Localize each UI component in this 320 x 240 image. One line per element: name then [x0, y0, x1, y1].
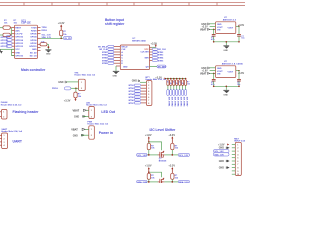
wire EN pullup net: [41, 37, 64, 39]
IC U2 left pin names: [121, 46, 128, 65]
resistor R13 value label: [151, 145, 155, 149]
IC U1 ESP-12E body: [15, 25, 38, 58]
svg-text:SR_SER: SR_SER: [158, 66, 167, 68]
svg-text:SW_BTN3: SW_BTN3: [174, 97, 176, 107]
resistor R12: [74, 88, 77, 98]
global label GPIO16: [1, 36, 13, 39]
svg-text:CH_PD: CH_PD: [15, 34, 23, 36]
resistor R14 value label: [175, 145, 179, 149]
svg-text:Flashing header: Flashing header: [13, 110, 40, 114]
svg-text:1: 1: [4, 135, 5, 137]
svg-text:GND: GND: [201, 23, 207, 26]
svg-text:2: 2: [91, 116, 92, 118]
power +3.3V at U2 VCC: [151, 43, 158, 48]
IC U1 right pins: [38, 27, 41, 50]
power flag VBAT at PWR pin1: [71, 128, 89, 131]
svg-text:5: 5: [237, 158, 238, 160]
svg-text:ADC: ADC: [15, 30, 20, 33]
svg-text:RXD0: RXD0: [42, 30, 48, 32]
junctions SCL wire: [148, 154, 173, 156]
section title Flashing header: [13, 110, 40, 114]
hierarchical label BTN7 at BT1: [129, 102, 141, 105]
svg-text:1k: 1k: [179, 81, 181, 83]
svg-text:SN74HC165D: SN74HC165D: [132, 40, 146, 43]
sheet border top: [0, 3, 245, 6]
hierarchical label SR_CLK: [99, 48, 114, 51]
svg-text:GPIO14: GPIO14: [15, 39, 23, 42]
hierarchical label BTN4 at BT1: [129, 93, 141, 96]
svg-text:4.7u: 4.7u: [211, 83, 215, 86]
junction R4: [48, 46, 50, 48]
svg-text:Header Male 2.54, 1x2: Header Male 2.54, 1x2: [1, 103, 23, 106]
resistor R3 pullup: [60, 30, 63, 38]
svg-text:BTN1: BTN1: [102, 52, 108, 54]
svg-text:SR_CLK: SR_CLK: [99, 49, 108, 51]
power +1.8V at SDA shifter: [145, 165, 152, 173]
wire SDA 1.8V side: [147, 181, 158, 183]
ground flag at U4 GND: [201, 67, 215, 70]
wire U2 QH out: [150, 66, 158, 68]
wire GND row: [12, 49, 15, 55]
svg-text:BTN3: BTN3: [102, 58, 108, 60]
net label SDA_3.3V: [42, 36, 52, 39]
svg-text:BTN3: BTN3: [158, 55, 164, 57]
global label GPIO12: [1, 42, 13, 45]
junction SDA gate: [148, 171, 150, 173]
resistor R2: [0, 33, 12, 36]
IC U2 left pins: [114, 46, 121, 63]
connector BT1 reference label: [146, 77, 168, 81]
svg-text:1: 1: [91, 110, 92, 112]
wire U2 GND: [116, 66, 120, 71]
vertical hierarchical labels BTN1-BTN7: [167, 90, 187, 96]
transistor Q2 BSS138: [158, 178, 165, 183]
section title Main controller: [21, 68, 46, 72]
svg-text:GPIO14: GPIO14: [1, 39, 9, 42]
svg-text:GPIO15: GPIO15: [15, 56, 23, 58]
transistor Q1 BSS138: [158, 151, 165, 158]
svg-text:+1.8V: +1.8V: [145, 134, 152, 137]
resistor network R5-R11: [167, 80, 187, 86]
hierarchical label BTN1 at BT1: [129, 84, 141, 87]
svg-text:RXD0: RXD0: [31, 31, 37, 33]
svg-text:SCL_3.3V: SCL_3.3V: [179, 155, 189, 157]
hierarchical label BTN2: [102, 54, 114, 57]
resistor R1 value label: [4, 20, 8, 24]
power +3.3V above R3: [58, 22, 65, 30]
wire SDA 3.3V side: [164, 181, 178, 183]
power +3.3V at SCL shifter: [168, 134, 175, 143]
svg-text:2: 2: [4, 139, 5, 141]
power +3.3V at U3 output: [238, 24, 245, 27]
svg-text:SCL_1.8V: SCL_1.8V: [137, 155, 147, 157]
svg-text:VOUT: VOUT: [228, 71, 234, 73]
svg-text:GND: GND: [217, 24, 222, 26]
resistor R2 value label: [14, 20, 18, 24]
svg-text:TXD0: TXD0: [42, 27, 48, 29]
svg-text:ESP-12E: ESP-12E: [21, 23, 31, 25]
junctions U3 rail: [213, 41, 240, 43]
connector UART pins: [0, 135, 2, 145]
svg-text:SDA_3.3V: SDA_3.3V: [179, 181, 189, 183]
capacitor C3: [212, 73, 216, 86]
svg-text:GPIO2: GPIO2: [30, 43, 37, 45]
svg-text:GPIO4: GPIO4: [30, 36, 37, 39]
wire U4 output: [236, 70, 239, 72]
svg-text:10: 10: [237, 174, 239, 176]
connector BT1 left pins: [141, 85, 146, 103]
connector LED reference label: [86, 102, 108, 106]
svg-text:2: 2: [91, 135, 92, 137]
svg-text:3: 3: [148, 88, 149, 90]
svg-text:BTN7: BTN7: [129, 103, 135, 105]
svg-text:7: 7: [237, 164, 238, 166]
svg-text:VBAT: VBAT: [71, 128, 78, 131]
global label SDA_1.8V at MA1: [213, 153, 229, 157]
svg-text:SH/LD: SH/LD: [121, 46, 128, 48]
svg-text:3: 3: [237, 151, 238, 153]
connector LED pin numbers: [91, 110, 92, 118]
connector BT1 pin numbers: [148, 82, 149, 105]
svg-text:VCC: VCC: [15, 49, 20, 51]
svg-text:2: 2: [81, 88, 82, 90]
power flag +1.8V at U4 VOUT tab: [202, 71, 216, 73]
svg-text:Main controller: Main controller: [21, 68, 46, 72]
junction U4 input cap: [213, 73, 215, 75]
power +3.3V below R12: [64, 98, 77, 102]
svg-text:GND: GND: [123, 66, 128, 68]
section title Button input shift register: [105, 18, 125, 26]
svg-text:GND: GND: [219, 160, 225, 163]
hierarchical label SR_CLD: [152, 48, 166, 51]
global label SDA_3.3V: [178, 180, 189, 184]
wire U4 ground rail: [214, 86, 239, 90]
svg-text:SDA_1.8V: SDA_1.8V: [214, 153, 224, 156]
resistor R13: [147, 142, 150, 155]
svg-text:GND: GND: [223, 50, 228, 52]
svg-text:SER: SER: [144, 57, 149, 59]
svg-text:C: C: [121, 58, 123, 60]
svg-text:10k: 10k: [4, 22, 8, 24]
wire SCL 3.3V side: [164, 154, 178, 156]
svg-text:+3.3V: +3.3V: [155, 76, 162, 79]
svg-text:10u: 10u: [241, 38, 244, 40]
svg-text:+3.3V: +3.3V: [168, 134, 175, 137]
wire SCL gate branch: [149, 142, 162, 150]
resistor R15: [147, 173, 150, 182]
power +3.3V at SDA shifter: [168, 165, 175, 174]
capacitor C4 value label: [237, 82, 240, 86]
svg-text:+3.3V: +3.3V: [168, 165, 175, 168]
svg-text:VBAT: VBAT: [200, 72, 207, 75]
svg-text:GND: GND: [15, 52, 20, 54]
svg-text:VCC: VCC: [144, 49, 149, 51]
wire U2 VCC: [150, 46, 156, 48]
svg-text:GND: GND: [73, 135, 78, 137]
junction EN pullup: [60, 37, 62, 39]
connector BT1 body: [146, 81, 152, 106]
svg-text:BTN2: BTN2: [102, 55, 108, 57]
svg-text:7: 7: [148, 100, 149, 102]
svg-text:1: 1: [3, 112, 4, 114]
ground flag at LED pin2: [74, 115, 89, 118]
IC U2 right pins: [150, 49, 153, 60]
svg-text:UART: UART: [13, 140, 23, 144]
resistor R4 pulldown: [40, 43, 48, 50]
svg-text:BTN4: BTN4: [158, 57, 164, 60]
regulator U4 pin names: [217, 68, 234, 76]
svg-text:Header Male 2.54, 1x2: Header Male 2.54, 1x2: [74, 74, 96, 77]
capacitor C3 value label: [211, 82, 215, 86]
svg-text:1: 1: [148, 82, 149, 84]
svg-text:B: B: [121, 55, 123, 57]
svg-text:SW_BTN1: SW_BTN1: [168, 97, 170, 107]
svg-text:VIN: VIN: [217, 74, 221, 76]
vertical net name texts BTN1-BTN7: [168, 97, 188, 107]
svg-text:BSS138: BSS138: [159, 160, 167, 162]
hierarchical label SR_SRLD: [98, 45, 114, 48]
svg-text:1: 1: [81, 82, 82, 84]
svg-text:AMS1117-3.3: AMS1117-3.3: [223, 19, 237, 22]
resistor R1: [0, 26, 12, 29]
connector TH1 body: [79, 79, 86, 90]
connector PWR pin numbers: [91, 129, 92, 137]
connector UART reference label: [1, 128, 23, 133]
svg-text:shift register: shift register: [105, 22, 125, 26]
regulator U3 body: [216, 22, 236, 34]
svg-text:Power in: Power in: [99, 131, 113, 135]
hierarchical label BTN3 at BT1: [129, 90, 141, 93]
svg-text:SW_BTN2: SW_BTN2: [171, 97, 173, 107]
svg-text:GND: GND: [132, 80, 138, 83]
svg-text:GND: GND: [58, 81, 64, 84]
hierarchical label BTN5 right: [152, 59, 164, 62]
svg-text:10k: 10k: [14, 22, 18, 24]
global label GPIO13: [1, 45, 13, 48]
svg-text:9: 9: [237, 171, 238, 173]
connector FLASH reference label: [1, 101, 23, 106]
svg-text:GND: GND: [217, 68, 222, 70]
IC U1 left pins: [12, 27, 15, 55]
svg-text:I2C Level Shifter: I2C Level Shifter: [150, 128, 177, 132]
section title LED Out: [101, 110, 115, 114]
svg-text:SW_BTN7: SW_BTN7: [185, 97, 187, 107]
svg-text:SW_BTN4: SW_BTN4: [177, 97, 180, 107]
svg-text:VBAT: VBAT: [200, 28, 207, 31]
IC U1 left pin names: [15, 27, 23, 57]
svg-text:1: 1: [91, 129, 92, 131]
svg-text:SR_CLD: SR_CLD: [158, 49, 167, 51]
svg-text:GPIO0: GPIO0: [30, 40, 37, 42]
global label SCL_1.8V at MA1: [213, 150, 229, 154]
regulator U3 pin names: [217, 24, 234, 32]
svg-text:10k: 10k: [78, 96, 82, 98]
global label SCL_1.8V: [137, 153, 148, 157]
connector UART pin numbers: [4, 135, 5, 147]
net label at TH1 pin2: [64, 87, 78, 90]
connector PWR reference label: [87, 122, 109, 126]
ground flag at MA1 pin2: [219, 147, 230, 150]
global label SDA_1.8V: [137, 180, 148, 184]
resistor R16: [171, 173, 174, 182]
svg-text:BTN4: BTN4: [102, 59, 108, 62]
capacitor C2: [237, 27, 241, 42]
capacitor C4: [237, 71, 241, 87]
transistor Q1 label: [159, 158, 167, 162]
power flag +3.3V at U3 VOUT tab: [202, 27, 216, 29]
resistor network bottom leads: [168, 85, 186, 89]
ground below U4: [223, 90, 229, 97]
svg-text:VOUT: VOUT: [228, 27, 234, 29]
svg-text:BTN5: BTN5: [129, 97, 135, 99]
ground at left edge: [0, 49, 3, 53]
wire joining R1 R2 to pins: [10, 28, 12, 35]
svg-text:4.7u: 4.7u: [211, 38, 215, 41]
IC U2 reference label: [132, 38, 146, 42]
svg-text:VOUT: VOUT: [217, 71, 223, 73]
svg-text:PROG: PROG: [52, 88, 58, 90]
svg-text:GND: GND: [32, 49, 37, 51]
global label GPIO14: [1, 39, 13, 42]
svg-text:GND: GND: [74, 117, 79, 119]
connector FLASH pin numbers: [3, 112, 4, 119]
resistor R15 value label: [151, 175, 155, 179]
section title I2C Level Shifter: [150, 128, 177, 132]
svg-text:8: 8: [237, 168, 238, 170]
svg-text:GND: GND: [201, 67, 207, 70]
svg-text:1k: 1k: [173, 81, 175, 83]
svg-text:E: E: [121, 63, 123, 65]
power flag VBAT at LED pin1: [73, 109, 89, 112]
svg-text:GND: GND: [219, 167, 225, 170]
hierarchical label BTN4 right: [152, 57, 164, 60]
global label SCL_3.3V: [178, 153, 189, 157]
svg-text:CLK: CLK: [121, 49, 126, 51]
wire SDA gate branch: [149, 172, 162, 177]
connector LED body: [89, 107, 95, 119]
svg-text:GND: GND: [223, 94, 228, 96]
connector FLASH body: [1, 110, 7, 120]
hierarchical label BTN6 at BT1: [129, 99, 141, 102]
svg-text:CLK INH: CLK INH: [140, 52, 149, 54]
svg-text:10k: 10k: [151, 148, 155, 150]
resistor R16 value label: [175, 175, 179, 179]
power +1.8V at U4 output: [238, 70, 245, 75]
resistor R12 value label: [78, 94, 82, 98]
hierarchical label BTN4: [102, 59, 114, 62]
svg-text:GPIO16: GPIO16: [15, 37, 23, 39]
svg-text:6: 6: [148, 97, 149, 99]
svg-text:VOUT: VOUT: [217, 27, 223, 29]
resistor R3 value label: [63, 31, 67, 36]
power +1.8V at MA1 pin1: [218, 144, 229, 147]
net label TXD: [42, 27, 48, 29]
svg-text:8: 8: [148, 103, 149, 105]
svg-text:BTN4: BTN4: [129, 93, 135, 96]
net label SCL_3.3V: [42, 34, 52, 36]
svg-text:TXD0: TXD0: [31, 27, 37, 29]
svg-text:4: 4: [237, 153, 238, 156]
wire VCC row: [1, 48, 15, 50]
ground below U2: [113, 71, 120, 78]
power +1.8V at SCL shifter: [145, 134, 152, 142]
ground flag at MA1 pin6: [219, 160, 230, 163]
svg-text:+1.8V: +1.8V: [145, 165, 152, 168]
svg-text:SD_D2: SD_D2: [30, 52, 38, 54]
svg-text:BTN6: BTN6: [129, 100, 135, 102]
connector UART body: [2, 133, 8, 149]
svg-text:1k: 1k: [176, 83, 178, 85]
resistor network value labels: [167, 81, 190, 85]
svg-text:GPIO13: GPIO13: [15, 46, 23, 48]
resistor R14: [171, 143, 174, 155]
ground flag at BT1 pin1: [132, 80, 147, 83]
junctions on pullup rail: [167, 78, 186, 80]
svg-text:2: 2: [237, 148, 238, 150]
junctions SDA wire: [148, 181, 173, 183]
svg-text:AMS1117-1.8_C6186: AMS1117-1.8_C6186: [222, 63, 244, 66]
junctions U4 rail: [213, 86, 240, 88]
svg-text:CH_PD: CH_PD: [64, 38, 71, 40]
power flag VBAT at U4 VIN: [200, 72, 216, 75]
svg-text:BTN3: BTN3: [129, 91, 135, 93]
capacitor C1 value label: [211, 37, 215, 41]
connector FLASH pins: [0, 112, 1, 117]
wire U3 ground rail: [214, 42, 239, 46]
svg-text:VIN: VIN: [217, 30, 221, 32]
connector MA1 left pins: [232, 145, 236, 175]
svg-text:4: 4: [4, 144, 5, 147]
svg-text:Header Male 2.54, 1x2: Header Male 2.54, 1x2: [86, 104, 108, 107]
hierarchical label BTN2 right: [152, 51, 164, 54]
connector MA1 pin numbers: [237, 144, 239, 176]
svg-text:GPIO5: GPIO5: [30, 34, 37, 36]
connector MA1 body: [235, 142, 241, 175]
regulator U4 body: [216, 66, 236, 78]
svg-text:SD_CS: SD_CS: [30, 56, 38, 58]
junction U3 input cap: [213, 29, 215, 31]
section title UART: [13, 140, 23, 144]
svg-text:QH: QH: [146, 66, 150, 68]
svg-text:10k: 10k: [151, 178, 155, 180]
svg-text:SW_BTN6: SW_BTN6: [182, 97, 184, 107]
hierarchical label BTN3 right: [152, 54, 164, 57]
ground below U3: [223, 45, 229, 52]
hierarchical label BTN5 at BT1: [129, 96, 141, 99]
IC U1 ESP-12E reference label: [21, 20, 31, 24]
svg-text:Header Male 2.54, 1x2: Header Male 2.54, 1x2: [87, 123, 109, 126]
connector PWR body: [89, 126, 95, 139]
svg-text:D: D: [121, 60, 123, 62]
connector TH1 reference label: [74, 72, 96, 76]
regulator U4 reference label: [222, 61, 244, 65]
regulator U3 reference label: [223, 17, 237, 21]
svg-text:SR_SRLD: SR_SRLD: [98, 46, 108, 48]
svg-text:REST: REST: [15, 27, 21, 29]
junction TH1 pin2: [75, 87, 77, 89]
svg-text:BTN2: BTN2: [158, 52, 164, 54]
svg-text:+3.3V: +3.3V: [64, 99, 71, 102]
IC U2 right pin names: [123, 49, 149, 69]
svg-text:BTN1: BTN1: [129, 85, 135, 87]
ground flag at U3 GND: [201, 23, 215, 26]
global label CH_PD: [63, 37, 72, 40]
svg-text:10k: 10k: [175, 148, 179, 150]
hierarchical label BTN1: [102, 51, 114, 54]
svg-text:SW_BTN5: SW_BTN5: [180, 97, 182, 107]
capacitor C2 value label: [241, 36, 244, 40]
net name text PROG: [52, 88, 58, 90]
